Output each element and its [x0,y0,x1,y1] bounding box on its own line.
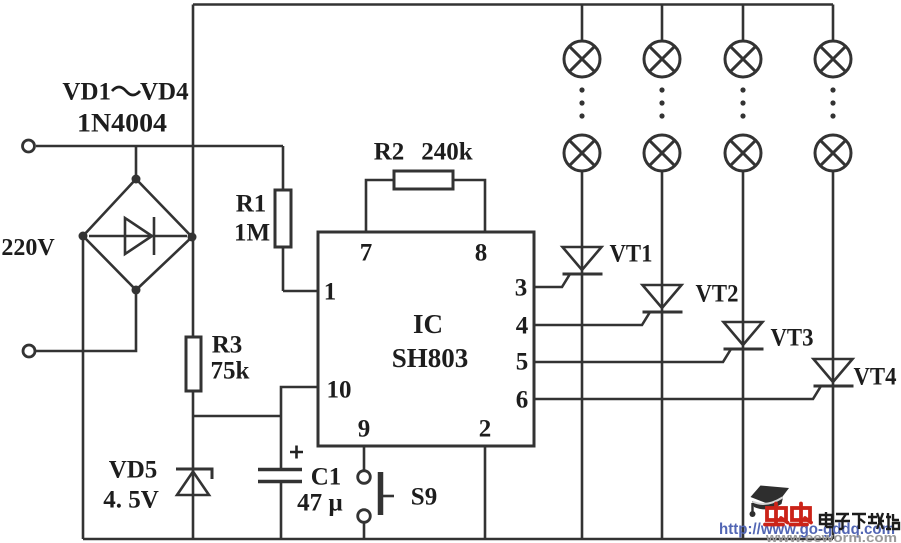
node bridge right [188,233,197,242]
node bridge bottom [132,286,141,295]
svg-text:VT3: VT3 [771,325,814,352]
continuation dots column 2 [659,87,664,118]
wire DC- vertical to bottom rail [82,236,85,539]
svg-text:IC: IC [413,309,443,339]
svg-text:220V: 220V [1,235,55,261]
svg-text:R3: R3 [212,332,243,359]
svg-text:VT2: VT2 [696,281,739,308]
watermark text www.eeworm.com (gray) [765,531,897,543]
switch S9 pushbutton [358,445,394,539]
svg-text:240k: 240k [421,139,473,166]
capacitor C1 [258,416,302,539]
wire from T1 to R1 [36,145,283,148]
svg-text:VD4: VD4 [140,79,189,106]
label 75k [211,358,250,385]
svg-text:3: 3 [515,275,528,302]
pin 10 label [327,377,352,404]
wire lamp column 2 [661,5,664,540]
svg-text:VT1: VT1 [610,241,653,268]
svg-text:R1: R1 [236,191,267,218]
pin 2 label [479,416,492,443]
pin 6 label [516,387,529,414]
svg-text:VD1: VD1 [62,79,111,106]
svg-text:47 µ: 47 µ [297,490,343,517]
label IC [413,309,443,339]
zener diode VD5 [176,469,212,495]
wire pin 2 to bottom rail [484,445,487,539]
plus sign of C1 [290,446,303,459]
bridge rectifier VD1-VD4 diamond [83,179,192,290]
label R2 240k [374,139,473,166]
svg-text:1: 1 [324,279,337,306]
thyristor VT2 [534,285,683,325]
svg-text:4. 5V: 4. 5V [103,487,159,514]
svg-text:8: 8 [475,240,488,267]
wire R1 to pin 1 [283,290,318,293]
node bridge left [79,232,88,241]
svg-text:75k: 75k [211,358,250,385]
label C1 [311,464,342,491]
pin 7 label [360,240,373,267]
svg-text:www.eeworm.com: www.eeworm.com [765,531,897,543]
label VT1 [610,241,653,268]
svg-text:VD5: VD5 [109,457,158,484]
pin 5 label [516,349,529,376]
node bridge top [132,175,141,184]
lamp column 3 top [725,41,761,77]
svg-text:6: 6 [516,387,529,414]
thyristor VT3 [534,322,764,362]
resistor R2 [366,171,485,232]
diode inside bridge [89,217,187,255]
svg-text:R2: R2 [374,139,405,166]
resistor R3 [186,337,201,539]
resistor R1 [275,146,291,291]
watermark text 电子下载站 (black) [820,512,899,529]
label 1M [234,220,270,247]
watermark graduation cap logo [750,486,790,518]
svg-text:2: 2 [479,416,492,443]
lamp column 3 bottom [725,135,761,171]
svg-text:5: 5 [516,349,529,376]
label 47u [297,490,343,517]
label SH803 [392,343,469,373]
lamp column 4 bottom [815,135,851,171]
label S9 [411,484,437,511]
wire DC+ vertical from top rail to R3 [192,5,195,338]
pin 3 label [515,275,528,302]
label 4.5V [103,487,159,514]
pin 8 label [475,240,488,267]
label 220V [1,235,55,261]
pin 9 label [358,416,371,443]
thyristor VT1 [534,247,603,287]
continuation dots column 4 [830,87,835,118]
wire lamp column 4 [832,5,835,540]
wire from T2 to bridge bottom [36,290,136,351]
lamp column 4 top [815,41,851,77]
pin 1 label [324,279,337,306]
svg-text:4: 4 [516,313,529,340]
label VT3 [771,325,814,352]
wire bridge top lead [135,146,138,178]
IC U1 SH803 box [318,232,534,446]
lamp column 2 top [644,41,680,77]
lamp column 1 top [564,41,600,77]
lamp column 2 bottom [644,135,680,171]
thyristor VT4 [534,359,854,399]
svg-text:SH803: SH803 [392,343,469,373]
wire bottom rail [83,538,833,541]
continuation dots column 3 [740,87,745,118]
svg-text:1N4004: 1N4004 [77,109,167,138]
wire top rail [193,3,833,6]
label VT4 [854,364,897,391]
svg-text:7: 7 [360,240,373,267]
label R3 [212,332,243,359]
label R1 [236,191,267,218]
label 1N4004 [77,109,167,138]
wire pin 10 to C1/R3 [193,387,318,416]
terminal T2 (AC input bottom) [23,345,35,357]
watermark text 虫虫 (red) [765,504,811,525]
lamp column 1 bottom [564,135,600,171]
wire lamp column 1 [581,5,584,540]
label VD1~VD4 [62,79,189,106]
svg-text:9: 9 [358,416,371,443]
label VD5 [109,457,158,484]
label VT2 [696,281,739,308]
svg-text:10: 10 [327,377,352,404]
svg-text:C1: C1 [311,464,342,491]
svg-text:1M: 1M [234,220,270,247]
continuation dots column 1 [579,87,584,118]
terminal T1 (AC input top) [23,140,35,152]
wire lamp column 3 [742,5,745,540]
svg-text:VT4: VT4 [854,364,897,391]
svg-text:S9: S9 [411,484,437,511]
watermark text http url (blue) [719,521,895,538]
pin 4 label [516,313,529,340]
